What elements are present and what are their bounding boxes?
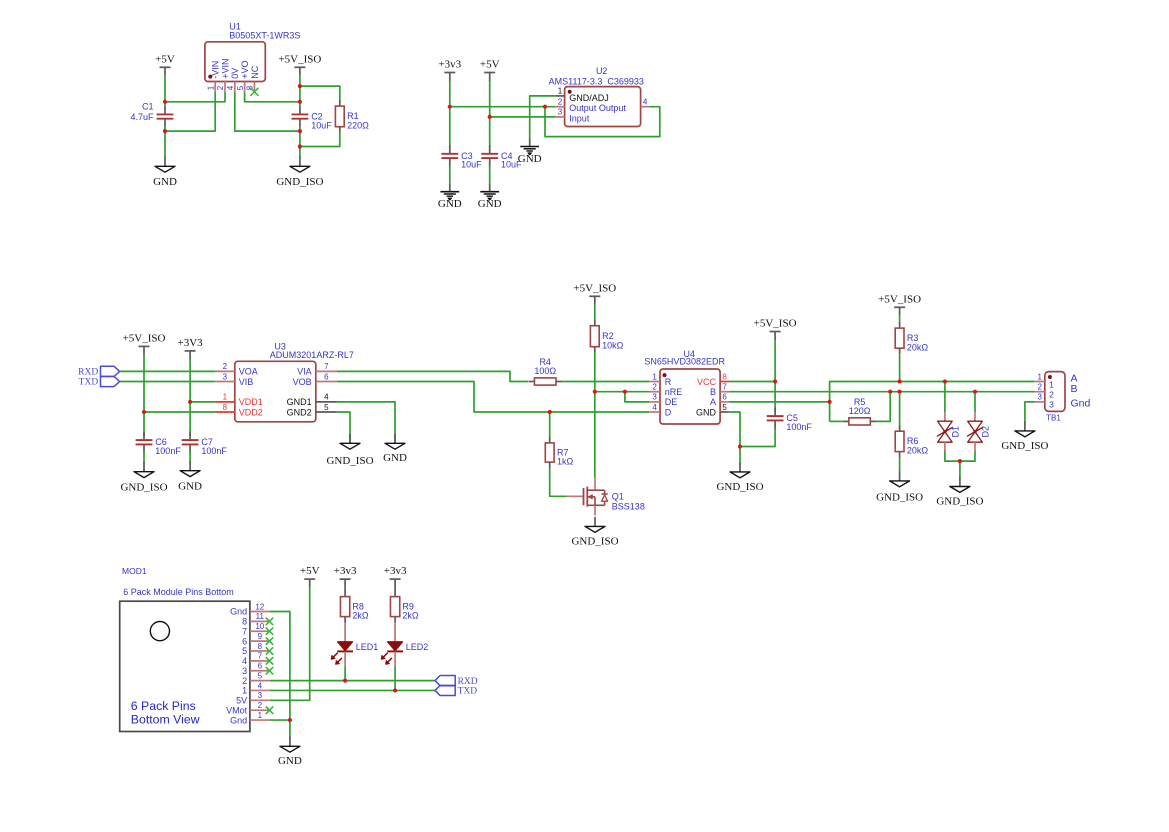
junction MOD1 gnd — [288, 718, 292, 722]
junction C1 bottom — [163, 129, 167, 133]
wire VIA to R4 — [337, 371, 528, 381]
svg-text:5: 5 — [324, 403, 329, 412]
LED LED1 — [331, 642, 378, 664]
resistor R1 220Ω — [335, 100, 369, 133]
junction U2 output sense — [543, 105, 547, 109]
svg-text:RXD: RXD — [458, 677, 478, 687]
U1 pins 1,2,4,5,8 — [206, 58, 259, 91]
junction GND_ISO node — [738, 444, 742, 448]
svg-text:1: 1 — [558, 87, 563, 96]
junction R1 bottom tap — [298, 144, 302, 148]
ground GND (U2 pin1) — [518, 139, 542, 165]
svg-text:3: 3 — [242, 666, 247, 676]
ground GND — [153, 157, 177, 188]
svg-text:GND: GND — [438, 198, 462, 210]
svg-text:1kΩ: 1kΩ — [557, 457, 574, 467]
svg-text:2: 2 — [1037, 383, 1042, 392]
svg-text:2: 2 — [242, 676, 247, 686]
wire R2 down to Q1 drain — [594, 352, 596, 477]
U4 pin 8 VCC — [697, 372, 729, 387]
svg-text:+5V: +5V — [300, 565, 320, 577]
svg-text:5: 5 — [722, 403, 727, 412]
power +3V3 (U3) — [178, 337, 204, 360]
junction VDD2 tap — [142, 410, 146, 414]
U3 pin 8 VDD2 — [215, 403, 263, 418]
svg-text:10: 10 — [255, 622, 264, 631]
capacitor C6 100nF — [136, 432, 182, 456]
svg-text:4: 4 — [643, 98, 648, 107]
svg-text:LED2: LED2 — [406, 642, 429, 652]
wire VOB to U4 D — [337, 382, 649, 413]
resistor R7 1kΩ — [545, 437, 573, 468]
svg-text:GND: GND — [696, 407, 717, 417]
svg-text:1: 1 — [1037, 372, 1042, 381]
wire R1 bottom — [300, 132, 340, 147]
svg-text:U2: U2 — [596, 66, 608, 76]
junction D pair — [958, 459, 962, 463]
svg-text:6: 6 — [242, 636, 247, 646]
svg-text:DE: DE — [665, 397, 678, 407]
transistor Q1 BSS138 — [567, 478, 645, 516]
svg-text:+3v3: +3v3 — [334, 565, 357, 577]
svg-text:10uF: 10uF — [311, 120, 332, 130]
svg-text:NC: NC — [250, 65, 260, 78]
svg-text:GND_ISO: GND_ISO — [120, 481, 167, 493]
svg-text:GND_ISO: GND_ISO — [276, 176, 323, 188]
svg-text:2: 2 — [1049, 390, 1054, 400]
junction C2 bottom — [298, 129, 302, 133]
wire TXD line — [270, 689, 435, 691]
resistor R8 2kΩ — [340, 591, 368, 623]
ground GND_ISO — [276, 157, 323, 188]
svg-text:D: D — [665, 407, 672, 417]
svg-text:BSS138: BSS138 — [612, 501, 645, 511]
U4 pin 6 A — [710, 393, 729, 408]
wire nRE to U4 — [595, 391, 650, 393]
svg-text:2kΩ: 2kΩ — [402, 611, 419, 621]
svg-text:LED1: LED1 — [356, 642, 379, 652]
svg-text:6: 6 — [722, 393, 727, 402]
svg-text:MOD1: MOD1 — [122, 566, 147, 576]
svg-text:GND_ISO: GND_ISO — [716, 481, 763, 493]
wire +5V_ISO to R3 — [899, 316, 901, 323]
wire R4 to U4 R — [562, 381, 649, 383]
svg-text:D2: D2 — [981, 426, 991, 438]
ground GND_ISO under C6 — [120, 462, 167, 493]
junction D2/B — [973, 390, 977, 394]
svg-text:GND: GND — [178, 480, 202, 492]
wire DE to nRE — [625, 392, 649, 402]
svg-text:GND_ISO: GND_ISO — [326, 455, 373, 467]
U2 pin 2 Output / pin 4 Output — [556, 98, 650, 114]
junction LED1/RXD — [343, 678, 347, 682]
wire D2 top — [974, 392, 976, 413]
ground GND_ISO (U4) — [716, 462, 763, 493]
junction C2 top — [298, 100, 302, 104]
diode D2 (TVS) — [967, 412, 991, 452]
resistor R5 120Ω — [843, 397, 877, 425]
wire +5V rail — [489, 81, 491, 147]
svg-text:Gnd: Gnd — [230, 607, 247, 617]
TB1 pin 2 / B — [1035, 383, 1078, 400]
capacitor C4 10uF — [481, 145, 522, 169]
wire LED2 cathode — [394, 651, 396, 690]
power +5V (U2) — [480, 59, 500, 82]
svg-text:1: 1 — [652, 372, 657, 381]
svg-text:8: 8 — [722, 372, 727, 381]
junction R6/B — [898, 390, 902, 394]
svg-text:GND_ISO: GND_ISO — [936, 496, 983, 508]
U3 pin 5 GND2 — [287, 403, 337, 418]
svg-text:SN65HVD3082EDR: SN65HVD3082EDR — [644, 357, 725, 367]
svg-text:6: 6 — [258, 662, 263, 671]
U4 pin 2 nRE — [649, 383, 682, 398]
svg-text:100Ω: 100Ω — [534, 366, 556, 376]
svg-text:Q1: Q1 — [612, 492, 624, 502]
wire U4 GND pin to GND_ISO — [729, 412, 740, 464]
wire R5 left — [830, 420, 843, 422]
svg-text:GND_ISO: GND_ISO — [876, 491, 923, 503]
wire MOD1 pin12 Gnd — [270, 612, 290, 721]
svg-text:+5V: +5V — [480, 59, 500, 71]
power +5V_ISO — [278, 53, 321, 76]
resistor R9 2kΩ — [390, 591, 418, 623]
wire TXD to U3 — [120, 381, 215, 383]
IC U3 ADUM3201ARZ-RL7 — [235, 342, 354, 422]
svg-text:Bottom View: Bottom View — [131, 712, 200, 726]
svg-text:+3v3: +3v3 — [438, 59, 461, 71]
wire GND2 to GND_ISO — [337, 412, 350, 443]
U4 pin 7 B — [710, 383, 729, 398]
wire U1 pin5 to +5V_ISO — [245, 92, 300, 102]
svg-text:220Ω: 220Ω — [347, 121, 369, 131]
junction nRE tap — [593, 390, 597, 394]
U3 pin 4 GND1 — [287, 393, 337, 408]
wire C7 to GND — [189, 452, 191, 464]
svg-text:20kΩ: 20kΩ — [907, 446, 929, 456]
LED LED2 — [381, 642, 428, 664]
U4 pin 4 D — [649, 403, 672, 418]
svg-text:1: 1 — [258, 711, 263, 720]
wire B to R6 — [899, 392, 901, 426]
junction D1 top — [943, 379, 947, 383]
U3 pin 2 VOA — [215, 362, 258, 377]
svg-text:R: R — [665, 377, 672, 387]
U3 pin 6 VOB — [293, 372, 337, 387]
svg-text:2: 2 — [223, 362, 228, 371]
no-connect marks MOD1 — [266, 618, 273, 714]
svg-text:VOA: VOA — [239, 367, 258, 377]
TB1 pin 3 / Gnd — [1035, 393, 1091, 410]
svg-text:B: B — [1071, 383, 1078, 395]
power +3v3 (LED2) — [384, 565, 407, 588]
resistor R3 20kΩ — [895, 322, 928, 354]
svg-text:7: 7 — [258, 652, 263, 661]
wire to GND_ISO (D pair) — [959, 461, 961, 478]
svg-text:4: 4 — [258, 681, 263, 690]
wire R9 to LED2 — [394, 623, 396, 642]
U2 pin 1 GND/ADJ — [556, 87, 609, 103]
svg-text:B0505XT-1WR3S: B0505XT-1WR3S — [229, 30, 300, 40]
svg-text:GND: GND — [153, 176, 177, 188]
power +5V — [155, 53, 175, 76]
ground GND under C3 — [438, 184, 462, 210]
wire U2 pin4 loop — [545, 107, 660, 137]
junction R5/B — [888, 390, 892, 394]
svg-text:10uF: 10uF — [461, 160, 482, 170]
ground GND_ISO (Q1 source) — [571, 517, 618, 548]
wire MOD1 pin1 Gnd — [270, 719, 290, 721]
svg-text:nRE: nRE — [665, 387, 683, 397]
svg-text:3: 3 — [652, 393, 657, 402]
U4 pin 1 R — [649, 372, 672, 387]
svg-text:TB1: TB1 — [1046, 413, 1061, 422]
svg-text:Gnd: Gnd — [230, 715, 247, 725]
ground GND under C7 — [178, 461, 202, 492]
resistor R6 20kΩ — [895, 425, 928, 457]
ground GND under C4 — [478, 184, 502, 210]
svg-text:5: 5 — [258, 671, 263, 680]
wire +5V to pin3 — [270, 588, 310, 701]
power +5V (MOD1) — [300, 565, 320, 588]
U3 pin 1 VDD1 — [215, 393, 263, 408]
wire R5 right to B — [876, 392, 890, 422]
svg-text:20kΩ: 20kΩ — [907, 342, 929, 352]
capacitor C3 10uF — [441, 145, 482, 169]
svg-text:TXD: TXD — [79, 378, 99, 388]
svg-text:AMS1117-3.3 C369933: AMS1117-3.3 C369933 — [549, 77, 644, 87]
svg-text:B: B — [710, 387, 716, 397]
svg-text:120Ω: 120Ω — [849, 406, 871, 416]
svg-text:C1: C1 — [142, 102, 154, 112]
svg-text:3: 3 — [1049, 400, 1054, 410]
svg-text:100nF: 100nF — [201, 446, 227, 456]
U4 pin 5 GND — [696, 403, 729, 418]
wire +3v3 to U2 pin2 — [450, 106, 556, 108]
svg-text:6 Pack Pins: 6 Pack Pins — [131, 699, 196, 713]
wire B line — [729, 391, 1034, 393]
U3 pin 3 VIB — [215, 372, 253, 387]
wire R8 to LED1 — [344, 623, 346, 642]
svg-text:4: 4 — [226, 85, 235, 90]
svg-text:8: 8 — [223, 403, 228, 412]
wire +3v3 to R9 — [394, 588, 396, 592]
svg-text:+5V_ISO: +5V_ISO — [754, 318, 797, 330]
connector TB1 — [1045, 372, 1065, 423]
svg-text:5: 5 — [236, 85, 245, 90]
svg-text:ADUM3201ARZ-RL7: ADUM3201ARZ-RL7 — [270, 350, 354, 360]
svg-text:Input: Input — [569, 113, 590, 123]
svg-text:100nF: 100nF — [786, 422, 812, 432]
power +5V_ISO (U3 left) — [123, 332, 166, 355]
svg-text:VMot: VMot — [226, 705, 248, 715]
capacitor C2 10uF — [292, 106, 333, 130]
ground GND_ISO (U3 GND2) — [326, 434, 373, 467]
U2 pin 3 Input — [556, 108, 590, 124]
svg-text:GND_ISO: GND_ISO — [571, 535, 618, 547]
svg-text:+5V_ISO: +5V_ISO — [278, 53, 321, 65]
junction DE tie — [623, 390, 627, 394]
capacitor C5 100nF — [767, 408, 813, 432]
wire GND1 to GND — [337, 402, 395, 443]
svg-text:TXD: TXD — [458, 687, 478, 697]
svg-text:VIB: VIB — [239, 377, 254, 387]
svg-text:GND_ISO: GND_ISO — [1001, 440, 1048, 452]
svg-text:3: 3 — [223, 372, 228, 381]
svg-text:7: 7 — [242, 626, 247, 636]
wire R3 to A line — [899, 354, 901, 381]
svg-text:GND: GND — [383, 452, 407, 464]
module MOD1 outline — [120, 566, 250, 732]
wire +3V3 down to C7 — [189, 359, 191, 436]
wire gnd stem — [289, 720, 291, 738]
svg-text:+3V3: +3V3 — [178, 337, 204, 349]
wire rail to GND_ISO — [299, 147, 301, 158]
svg-text:2: 2 — [652, 383, 657, 392]
IC U4 SN65HVD3082EDR — [644, 349, 725, 424]
junction VCC — [773, 379, 777, 383]
svg-text:4.7uF: 4.7uF — [130, 112, 154, 122]
wire RXD line — [270, 680, 435, 682]
svg-text:GND: GND — [518, 153, 542, 165]
svg-text:2: 2 — [216, 85, 225, 90]
wire R7 top — [549, 412, 551, 438]
svg-text:RXD: RXD — [78, 368, 98, 378]
wire C5 bottom — [740, 428, 775, 447]
wire VDD1 to U3 — [190, 401, 215, 403]
wire +3v3 rail — [449, 81, 451, 147]
svg-text:1: 1 — [206, 85, 215, 90]
svg-text:9: 9 — [258, 632, 263, 641]
junction VDD1 tap — [188, 400, 192, 404]
svg-text:4: 4 — [242, 656, 247, 666]
junction R1 top tap — [298, 84, 302, 88]
svg-text:7: 7 — [722, 383, 727, 392]
svg-text:D1: D1 — [950, 426, 960, 438]
svg-text:3: 3 — [1037, 393, 1042, 402]
svg-text:0V: 0V — [230, 68, 240, 79]
svg-text:GND: GND — [278, 755, 302, 767]
wire U2 pin1 to GND — [530, 96, 556, 139]
wire R6 to GND_ISO — [899, 458, 901, 472]
capacitor C1 4.7uF — [130, 102, 173, 128]
power +3v3 (LED1) — [334, 565, 357, 588]
port TXD (input) — [79, 376, 120, 387]
wire C2 bottom rail — [299, 127, 301, 150]
ground GND_ISO (D pair) — [936, 477, 983, 508]
wire U1 pin4 to GND_ISO — [235, 92, 300, 131]
svg-text:3: 3 — [558, 108, 563, 117]
svg-text:2: 2 — [258, 701, 263, 710]
svg-text:11: 11 — [256, 612, 265, 621]
svg-text:GND: GND — [478, 198, 502, 210]
ground GND_ISO (R6) — [876, 471, 923, 503]
junction R3 bottom — [898, 379, 902, 383]
port RXD (input) — [78, 366, 120, 377]
svg-text:GND2: GND2 — [287, 407, 312, 417]
svg-text:5V: 5V — [236, 696, 247, 706]
svg-text:100nF: 100nF — [155, 446, 181, 456]
svg-text:+5V: +5V — [155, 53, 175, 65]
wire R1 top — [300, 86, 340, 101]
svg-text:VDD2: VDD2 — [239, 407, 263, 417]
svg-text:1: 1 — [242, 686, 247, 696]
svg-text:8: 8 — [242, 617, 247, 627]
junction +5V/pin3 — [488, 115, 492, 119]
wire D1/D2 common — [945, 451, 975, 461]
svg-text:5: 5 — [242, 646, 247, 656]
power +5V_ISO (R2) — [573, 282, 616, 305]
junction LED2/TXD — [393, 688, 397, 692]
svg-text:4: 4 — [324, 393, 329, 402]
power +3v3 — [438, 59, 461, 82]
wire C3 to GND — [449, 166, 451, 185]
wire RXD to U3 — [120, 370, 215, 372]
wire +3v3 to R8 — [344, 588, 346, 592]
resistor R4 100Ω — [528, 357, 562, 385]
IC U1 B0505XT-1WR3S — [205, 21, 300, 81]
svg-text:3: 3 — [258, 691, 263, 700]
wire R7 to Q1 gate — [550, 468, 567, 497]
svg-text:+5V_ISO: +5V_ISO — [123, 332, 166, 344]
wire C1 to GND — [164, 127, 166, 157]
svg-text:12: 12 — [255, 602, 264, 611]
wire +5V_ISO down to C5 — [774, 340, 776, 412]
port TXD (output) — [435, 685, 477, 696]
U3 pin 7 VIA — [297, 362, 337, 377]
resistor R2 10kΩ — [590, 320, 623, 353]
svg-text:6: 6 — [324, 372, 329, 381]
U4 pin 3 DE — [649, 393, 677, 408]
wire +5V_ISO down to C6 — [143, 355, 145, 436]
power +5V_ISO (R3) — [878, 293, 921, 316]
junction R7 tap — [548, 410, 552, 414]
svg-text:8: 8 — [246, 85, 255, 90]
svg-text:+3v3: +3v3 — [384, 565, 407, 577]
capacitor C7 100nF — [182, 432, 228, 456]
svg-text:VIA: VIA — [297, 367, 312, 377]
no-connect U1 pin 8 — [250, 88, 258, 96]
ground GND (MOD1) — [278, 737, 302, 767]
wire +5V_ISO rail — [299, 76, 301, 106]
wire A up and to TB1 — [830, 382, 1035, 422]
svg-text:6 Pack Module Pins Bottom: 6 Pack Module Pins Bottom — [123, 587, 234, 597]
svg-text:+5V_ISO: +5V_ISO — [573, 282, 616, 294]
junction +3v3/pin2 — [448, 105, 452, 109]
wire D1 top — [944, 382, 946, 413]
wire TB1 pin3 to GND_ISO — [1025, 402, 1035, 423]
svg-text:+5V_ISO: +5V_ISO — [878, 293, 921, 305]
wire LED1 cathode — [344, 651, 346, 680]
svg-text:VCC: VCC — [697, 377, 717, 387]
svg-text:Gnd: Gnd — [1071, 397, 1091, 409]
svg-text:VDD1: VDD1 — [239, 397, 263, 407]
svg-text:GND/ADJ: GND/ADJ — [569, 93, 609, 103]
svg-text:7: 7 — [324, 362, 329, 371]
svg-text:8: 8 — [258, 642, 263, 651]
TB1 pin 1 / A — [1035, 372, 1078, 389]
svg-text:1: 1 — [223, 393, 228, 402]
MOD1 pins 1-12 — [226, 602, 270, 725]
ground GND (U3 GND1) — [383, 434, 407, 464]
svg-text:A: A — [710, 397, 716, 407]
wire +5V stem — [164, 76, 166, 106]
ground GND_ISO (TB1) — [1001, 421, 1048, 452]
wire U1 pin2 to +5V — [165, 92, 225, 102]
power +5V_ISO (U4) — [754, 318, 797, 341]
wire A to R5 column — [729, 401, 829, 403]
wire VDD2 to U3 — [144, 411, 215, 413]
